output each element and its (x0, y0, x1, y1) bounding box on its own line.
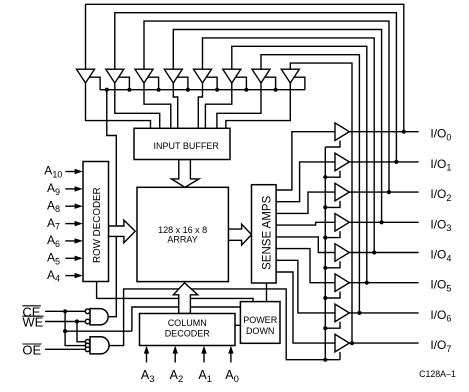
svg-text:DOWN: DOWN (246, 326, 275, 336)
svg-text:ROW DECODER: ROW DECODER (92, 187, 103, 263)
svg-text:SENSE AMPS: SENSE AMPS (262, 195, 274, 269)
svg-text:DECODER: DECODER (165, 329, 211, 339)
svg-text:128 x 16 x 8: 128 x 16 x 8 (158, 225, 207, 235)
svg-text:POWER: POWER (243, 315, 278, 325)
svg-text:WE: WE (22, 315, 43, 330)
svg-text:COLUMN: COLUMN (168, 318, 207, 328)
svg-text:INPUT BUFFER: INPUT BUFFER (154, 141, 220, 151)
svg-text:C128A–1: C128A–1 (419, 369, 456, 379)
svg-text:ARRAY: ARRAY (167, 234, 197, 244)
